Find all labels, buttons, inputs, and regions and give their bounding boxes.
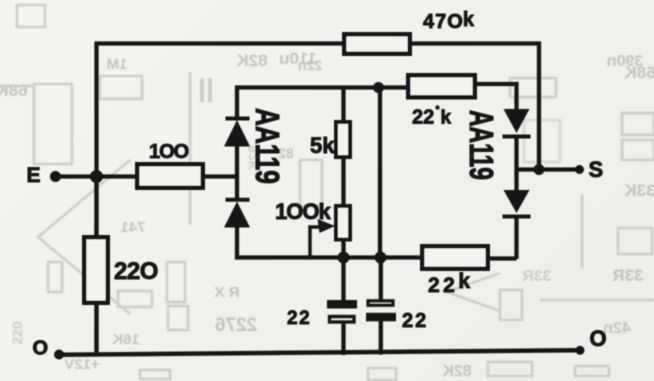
svg-text:47Ok: 47Ok: [423, 9, 475, 33]
svg-text:68K: 68K: [0, 81, 28, 100]
svg-text:220: 220: [9, 321, 25, 345]
svg-text:33R: 33R: [522, 268, 552, 285]
svg-text:E: E: [27, 164, 41, 187]
svg-text:1M: 1M: [107, 56, 128, 73]
svg-text:22: 22: [287, 308, 311, 329]
svg-text:O: O: [33, 338, 49, 360]
svg-text:AA119: AA119: [248, 108, 286, 184]
svg-text:2276: 2276: [215, 315, 257, 336]
svg-text:82K: 82K: [442, 363, 472, 380]
svg-text:16K: 16K: [112, 331, 140, 348]
svg-text:+12V: +12V: [64, 356, 99, 373]
svg-text:22k: 22k: [428, 270, 474, 297]
svg-text:22: 22: [402, 310, 428, 332]
svg-text:33R: 33R: [612, 266, 643, 285]
svg-text:S: S: [589, 157, 604, 182]
svg-text:5k: 5k: [310, 133, 335, 158]
svg-text:68K: 68K: [624, 63, 654, 82]
svg-text:k: k: [441, 108, 452, 129]
svg-text:1OOk: 1OOk: [275, 199, 331, 224]
svg-text:22O: 22O: [114, 258, 158, 285]
svg-text:22n: 22n: [298, 57, 322, 73]
svg-text:R X: R X: [214, 284, 239, 301]
svg-text:42n: 42n: [603, 320, 631, 337]
svg-text:O: O: [590, 326, 607, 351]
svg-text:741: 741: [120, 219, 145, 236]
svg-text:22: 22: [412, 107, 434, 129]
svg-text:AA119: AA119: [462, 110, 500, 180]
svg-text:1OO: 1OO: [149, 141, 189, 163]
svg-text:82K: 82K: [236, 51, 268, 70]
svg-text:33K: 33K: [624, 181, 654, 200]
